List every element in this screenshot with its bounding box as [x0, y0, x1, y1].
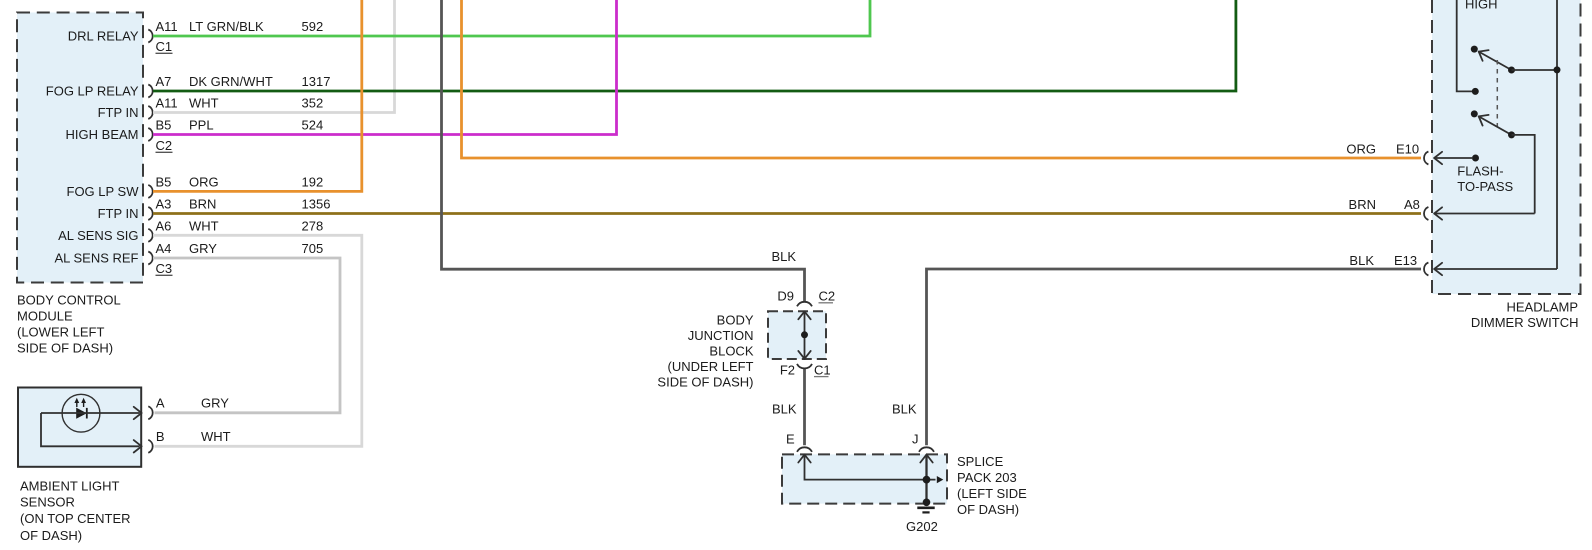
svg-text:DIMMER SWITCH: DIMMER SWITCH — [1471, 315, 1579, 330]
connector pin J (splice pack) — [912, 432, 934, 452]
svg-text:WHT: WHT — [201, 429, 231, 444]
svg-text:(LOWER LEFT: (LOWER LEFT — [17, 325, 104, 340]
wire BRN 1356 (FTP IN to dimmer A8) — [153, 212, 1421, 215]
svg-text:BLK: BLK — [892, 402, 917, 417]
junction block caption — [657, 313, 753, 390]
svg-text:A11: A11 — [156, 96, 178, 111]
svg-text:HIGH BEAM: HIGH BEAM — [66, 127, 139, 142]
svg-text:BRN: BRN — [1349, 197, 1376, 212]
photodiode circle — [62, 394, 100, 432]
svg-text:E: E — [786, 432, 795, 447]
splice pack caption — [957, 454, 1027, 517]
svg-text:TO-PASS: TO-PASS — [1457, 179, 1513, 194]
svg-text:HEADLAMP: HEADLAMP — [1506, 300, 1578, 315]
sensor pin B - WHT — [148, 429, 230, 453]
svg-text:AMBIENT LIGHT: AMBIENT LIGHT — [20, 479, 120, 494]
wire LT GRN/BLK 592 (DRL relay) — [153, 0, 870, 36]
svg-text:1356: 1356 — [302, 197, 331, 212]
splice internal wire from J to ground — [920, 455, 932, 502]
svg-text:278: 278 — [302, 218, 324, 233]
svg-text:BLK: BLK — [772, 249, 797, 264]
svg-text:DK GRN/WHT: DK GRN/WHT — [189, 74, 273, 89]
label HIGH — [1465, 0, 1498, 12]
svg-text:FTP IN: FTP IN — [98, 105, 139, 120]
wire BLK (junction block F2 to splice E) — [803, 369, 806, 445]
wire GRY 705 (BCM A4 to sensor A) — [153, 258, 340, 413]
ambient light sensor caption — [20, 479, 131, 543]
svg-text:AL SENS SIG: AL SENS SIG — [58, 228, 138, 243]
wire WHT 278 (BCM A6 to sensor B) — [153, 235, 362, 446]
BCM connector C3 label — [156, 261, 173, 276]
switch contact (upper, wiper 2) — [1471, 110, 1478, 117]
label BLK (junction block to splice wire) — [772, 402, 797, 417]
BCM pin A7 (FOG LP RELAY) - DK GRN/WHT 1317 — [46, 74, 331, 99]
svg-text:C3: C3 — [156, 261, 173, 276]
connector D9 / C2 (female arc at junction block top) — [777, 289, 835, 307]
svg-text:MODULE: MODULE — [17, 309, 73, 324]
body control module (BCM) box — [17, 13, 143, 283]
headlamp dimmer switch caption — [1471, 300, 1579, 331]
svg-text:192: 192 — [302, 174, 324, 189]
switch common vertical wire (to E13) — [1554, 0, 1561, 269]
svg-text:OF DASH): OF DASH) — [957, 502, 1019, 517]
sensor internal wire to pin A — [41, 407, 142, 419]
headlamp dimmer switch box — [1432, 0, 1581, 294]
svg-text:BRN: BRN — [189, 197, 216, 212]
sensor internal wire loop to pin B — [41, 413, 142, 453]
svg-text:A4: A4 — [156, 241, 172, 256]
flash-to-pass contact — [1472, 155, 1479, 162]
switch wiper 2 (flash-to-pass) — [1479, 115, 1535, 214]
switch wiper 1 (dimmer) — [1479, 50, 1557, 73]
svg-text:705: 705 — [302, 241, 324, 256]
svg-text:E13: E13 — [1394, 253, 1417, 268]
BCM pin A11 (DRL RELAY) - LT GRN/BLK 592 — [68, 19, 324, 44]
label BLK (wire into D9) — [772, 249, 797, 264]
svg-text:BODY: BODY — [717, 313, 754, 328]
BCM pin A11 (FTP IN) - WHT 352 — [98, 96, 324, 121]
svg-text:BLK: BLK — [772, 402, 797, 417]
svg-text:GRY: GRY — [201, 395, 229, 410]
svg-text:B: B — [156, 429, 165, 444]
wire BLK (dimmer E13 to splice J) — [927, 269, 1422, 445]
svg-text:BODY CONTROL: BODY CONTROL — [17, 293, 121, 308]
svg-text:WHT: WHT — [189, 218, 219, 233]
ground G202 symbol — [917, 499, 934, 513]
svg-text:A11: A11 — [156, 19, 178, 34]
gang (dashed link between wipers) — [1496, 60, 1498, 130]
svg-text:C1: C1 — [156, 39, 173, 54]
svg-text:SENSOR: SENSOR — [20, 494, 75, 509]
label BLK (dimmer to splice wire) — [892, 402, 917, 417]
photodiode light arrows — [74, 398, 86, 407]
svg-text:(UNDER LEFT: (UNDER LEFT — [668, 359, 754, 374]
BCM pin A6 (AL SENS SIG) - WHT 278 — [58, 218, 323, 243]
svg-text:524: 524 — [302, 118, 324, 133]
svg-text:C1: C1 — [814, 362, 831, 377]
svg-text:OF DASH): OF DASH) — [20, 528, 82, 543]
svg-text:BLOCK: BLOCK — [709, 344, 753, 359]
svg-text:F2: F2 — [780, 362, 795, 377]
svg-text:PPL: PPL — [189, 118, 214, 133]
BCM connector C1 label — [156, 39, 173, 54]
label G202 — [906, 519, 938, 534]
svg-text:592: 592 — [302, 19, 324, 34]
junction block internal wire with pins (up/down arrows) and junction dot — [798, 311, 810, 358]
svg-text:GRY: GRY — [189, 241, 217, 256]
photodiode (diode triangle and cathode bar) — [76, 408, 87, 419]
svg-text:(ON TOP CENTER: (ON TOP CENTER — [20, 511, 131, 526]
wire PPL 524 (high beam) — [153, 0, 617, 135]
connector F2 / C1 (female arc at junction block bottom) — [780, 362, 831, 377]
svg-text:WHT: WHT — [189, 96, 219, 111]
svg-text:FLASH-: FLASH- — [1457, 164, 1503, 179]
svg-text:HIGH: HIGH — [1465, 0, 1498, 12]
svg-text:FOG LP SW: FOG LP SW — [67, 184, 140, 199]
dimmer pin E13 - BLK — [1349, 253, 1557, 276]
svg-text:A: A — [156, 395, 165, 410]
wire BLK (BCM side to junction block D9) — [442, 0, 805, 302]
switch wire to HIGH/low contact — [1457, 0, 1479, 95]
svg-text:C2: C2 — [819, 289, 836, 304]
svg-text:A6: A6 — [156, 218, 172, 233]
svg-text:LT GRN/BLK: LT GRN/BLK — [189, 19, 264, 34]
svg-text:SPLICE: SPLICE — [957, 454, 1004, 469]
svg-text:352: 352 — [302, 96, 324, 111]
switch contact HIGH (upper) — [1471, 46, 1478, 53]
splice internal wire from E with arrows — [798, 455, 943, 484]
svg-text:PACK 203: PACK 203 — [957, 470, 1017, 485]
connector pin E (splice pack) — [786, 432, 812, 452]
svg-text:J: J — [912, 432, 919, 447]
BCM pin A4 (AL SENS REF) - GRY 705 — [54, 241, 323, 266]
svg-text:BLK: BLK — [1349, 253, 1374, 268]
svg-text:FOG LP RELAY: FOG LP RELAY — [46, 84, 139, 99]
svg-text:SIDE OF DASH): SIDE OF DASH) — [17, 341, 113, 356]
svg-text:C2: C2 — [156, 138, 173, 153]
svg-text:FTP IN: FTP IN — [98, 206, 139, 221]
label FLASH-TO-PASS — [1457, 164, 1513, 194]
svg-text:DRL RELAY: DRL RELAY — [68, 29, 139, 44]
wire ORG (flash-to-pass E10) — [462, 0, 1422, 158]
wire DK GRN/WHT 1317 (fog lp relay) — [153, 0, 1236, 91]
wire ORG 192 (fog lp sw) — [153, 0, 362, 191]
BCM connector C2 label — [156, 138, 173, 153]
svg-text:A8: A8 — [1404, 197, 1420, 212]
svg-text:ORG: ORG — [1346, 142, 1376, 157]
BCM pin B5 (FOG LP SW) - ORG 192 — [67, 174, 324, 199]
body junction block box — [768, 311, 826, 359]
svg-text:JUNCTION: JUNCTION — [688, 328, 754, 343]
svg-text:G202: G202 — [906, 519, 938, 534]
BCM pin B5 (HIGH BEAM) - PPL 524 — [66, 118, 324, 143]
dimmer pin E10 - ORG — [1346, 142, 1473, 165]
svg-text:(LEFT SIDE: (LEFT SIDE — [957, 486, 1027, 501]
svg-text:E10: E10 — [1396, 142, 1419, 157]
ambient light sensor box — [18, 388, 141, 467]
wire WHT 352 (BCM A11 to top) — [153, 0, 395, 113]
BCM pin A3 (FTP IN) - BRN 1356 — [98, 197, 331, 222]
svg-text:A7: A7 — [156, 74, 172, 89]
splice pack 203 box — [782, 454, 947, 503]
svg-text:1317: 1317 — [302, 74, 331, 89]
svg-text:B5: B5 — [156, 118, 172, 133]
svg-text:B5: B5 — [156, 174, 172, 189]
BCM caption — [17, 293, 121, 356]
sensor pin A - GRY — [148, 395, 229, 419]
svg-text:A3: A3 — [156, 197, 172, 212]
svg-text:SIDE OF DASH): SIDE OF DASH) — [657, 375, 753, 390]
svg-text:D9: D9 — [777, 289, 794, 304]
dimmer pin A8 - BRN — [1349, 197, 1535, 220]
svg-text:ORG: ORG — [189, 174, 219, 189]
svg-text:AL SENS REF: AL SENS REF — [54, 251, 138, 266]
